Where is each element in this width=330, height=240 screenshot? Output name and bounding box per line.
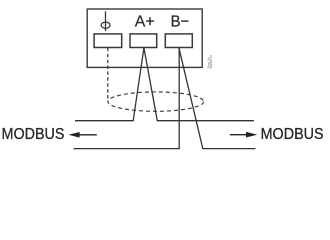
svg-text:MODBUS: MODBUS bbox=[261, 126, 324, 143]
svg-text:8024M-01: 8024M-01 bbox=[209, 55, 213, 69]
svg-text:B−: B− bbox=[171, 13, 190, 30]
svg-text:MODBUS: MODBUS bbox=[2, 126, 65, 143]
svg-text:A+: A+ bbox=[135, 13, 155, 30]
